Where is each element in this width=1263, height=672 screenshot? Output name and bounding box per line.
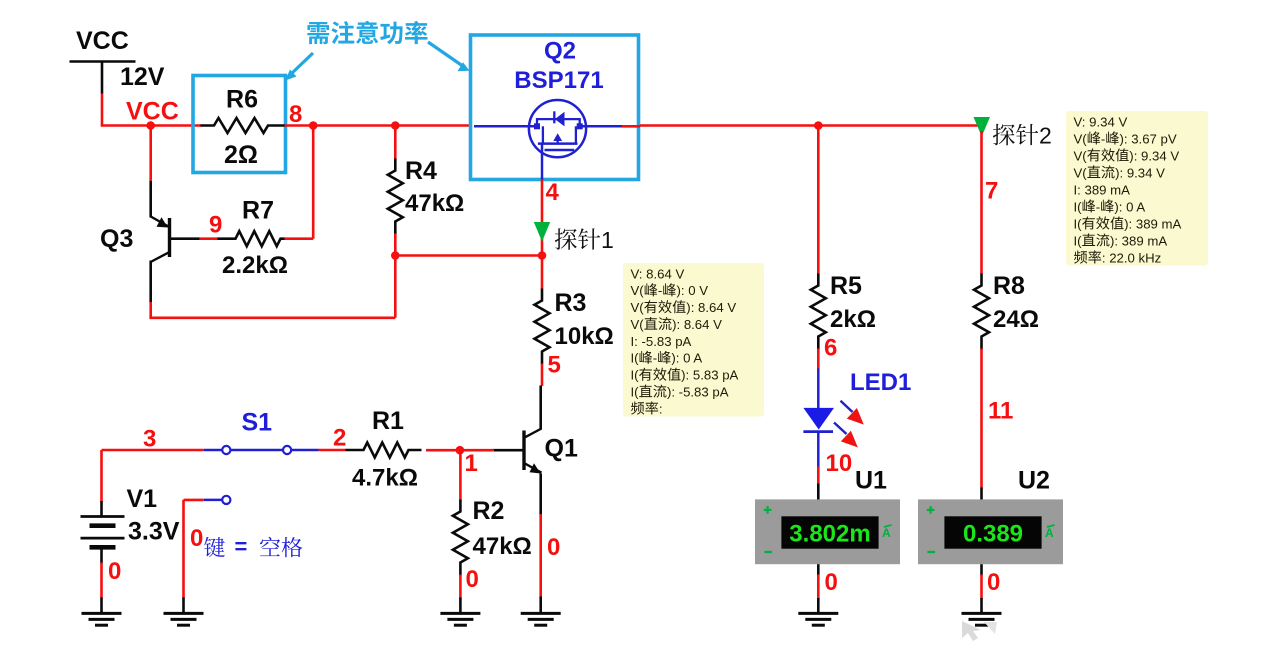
resistor R8 <box>974 272 1039 350</box>
svg-text::: : <box>659 401 663 416</box>
svg-text:Q3: Q3 <box>100 225 133 253</box>
svg-text:3: 3 <box>143 426 156 453</box>
svg-text:A: A <box>882 526 891 540</box>
node 3 wire <box>102 426 204 453</box>
annotation arrow to R6 <box>285 53 313 81</box>
ground under V1 <box>82 613 122 625</box>
node 8 <box>289 101 318 130</box>
wire U1 top stub <box>817 484 820 500</box>
probe 1 label 探针1 <box>555 227 614 253</box>
wire rail node8 to Q2 box <box>313 124 470 127</box>
svg-text:2kΩ: 2kΩ <box>830 306 876 333</box>
wire R5 drop <box>817 126 820 275</box>
svg-text:I(: I( <box>631 368 640 383</box>
wire VCC drop <box>101 94 151 126</box>
svg-text:BSP171: BSP171 <box>514 67 603 94</box>
highlight box around Q2 <box>471 35 639 180</box>
label 2 <box>333 425 346 452</box>
svg-text:R5: R5 <box>830 272 862 300</box>
annotation text 需注意功率 <box>307 21 427 44</box>
svg-text:R2: R2 <box>473 497 505 525</box>
svg-text:V(: V( <box>631 283 645 298</box>
wire U2 bottom <box>982 564 1001 613</box>
svg-text:0.389: 0.389 <box>963 521 1023 548</box>
svg-text:I: 389 mA: I: 389 mA <box>1074 182 1131 197</box>
svg-text:S1: S1 <box>242 409 273 437</box>
svg-text:): 9.34 V: ): 9.34 V <box>1115 165 1165 180</box>
wire S1 lower to ground <box>184 500 204 613</box>
wire node 10 <box>818 450 852 485</box>
svg-text:I: -5.83 pA: I: -5.83 pA <box>631 334 692 349</box>
svg-text:): 8.64 V: ): 8.64 V <box>672 317 722 332</box>
svg-text:2: 2 <box>1039 123 1052 149</box>
svg-text:12V: 12V <box>120 63 165 91</box>
ground under R2 <box>440 613 480 625</box>
wire R2 top <box>459 450 462 500</box>
switch S1 lower contact <box>204 496 231 504</box>
led arrow 1 <box>841 401 864 425</box>
svg-text:I(: I( <box>1074 216 1083 231</box>
label node 7 <box>985 178 998 205</box>
label LED1 <box>850 369 911 396</box>
svg-text:R6: R6 <box>226 86 258 114</box>
svg-text:3.802m: 3.802m <box>789 521 870 548</box>
wire V1 top <box>100 450 103 502</box>
svg-text:I(: I( <box>631 351 640 366</box>
svg-text:8: 8 <box>289 101 302 128</box>
svg-text:2.2kΩ: 2.2kΩ <box>222 252 288 279</box>
svg-text:V(: V( <box>631 317 645 332</box>
wire Q2 drain out <box>622 125 640 128</box>
svg-text:47kΩ: 47kΩ <box>405 190 464 217</box>
node VCC junction <box>146 121 155 130</box>
probe 2 label 探针2 <box>993 123 1052 149</box>
svg-text:): 389 mA: ): 389 mA <box>1110 233 1167 248</box>
wire Q2 source down <box>541 180 544 256</box>
svg-text:Q2: Q2 <box>544 38 576 65</box>
node 1 <box>456 446 478 477</box>
svg-text:V(: V( <box>1074 131 1088 146</box>
svg-text:0: 0 <box>825 569 838 596</box>
wire S1 to R1 <box>319 449 347 452</box>
wire Q3 emitter <box>149 126 152 182</box>
svg-text:0: 0 <box>466 566 479 593</box>
svg-text:5: 5 <box>548 352 561 379</box>
battery V1 <box>81 485 180 564</box>
svg-text:V(: V( <box>1074 165 1088 180</box>
ground under S1 branch <box>164 613 204 625</box>
svg-text:0: 0 <box>547 534 560 561</box>
svg-text:I(: I( <box>1074 199 1083 214</box>
node R4 bottom <box>391 251 400 260</box>
probe 1 readout box <box>623 263 764 417</box>
wire R7 to node 8 column <box>285 126 314 239</box>
svg-text:47kΩ: 47kΩ <box>473 533 532 560</box>
svg-text:10: 10 <box>826 450 853 477</box>
svg-text:R4: R4 <box>405 157 437 185</box>
wire U2 top stub <box>980 488 983 500</box>
svg-text:VCC: VCC <box>126 98 179 126</box>
svg-text:A: A <box>1045 526 1054 540</box>
resistor R3 <box>535 289 614 365</box>
svg-text:R8: R8 <box>993 272 1025 300</box>
wire R8 drop <box>980 131 983 274</box>
transistor Q3 <box>100 180 200 303</box>
svg-text:): 3.67 pV: ): 3.67 pV <box>1120 131 1177 146</box>
cursor artifact <box>962 621 997 641</box>
svg-text:-: - <box>658 283 662 298</box>
svg-text:U1: U1 <box>855 467 887 495</box>
ground under U2 <box>962 613 1002 625</box>
svg-text:4: 4 <box>546 179 560 206</box>
label U1 <box>855 467 887 495</box>
svg-text:Q1: Q1 <box>545 435 578 463</box>
wire node 9 base <box>200 212 223 239</box>
svg-text:U2: U2 <box>1018 467 1050 495</box>
resistor R6 <box>201 86 285 170</box>
wire R2 bottom <box>460 566 478 613</box>
highlight box around R6 <box>193 76 286 173</box>
wire Q1 emitter <box>541 474 561 614</box>
svg-text:V: 9.34 V: V: 9.34 V <box>1074 114 1128 129</box>
probe 2 arrow <box>974 117 991 137</box>
svg-text:R3: R3 <box>555 289 587 317</box>
net label VCC <box>126 98 179 126</box>
annotation arrow to Q2 <box>428 42 470 71</box>
wire node 11 <box>982 349 1014 489</box>
resistor R7 <box>218 197 288 280</box>
wire node 6 <box>818 335 837 370</box>
svg-text:1: 1 <box>601 227 614 253</box>
ammeter U1 <box>755 499 900 564</box>
svg-text:V1: V1 <box>127 485 158 513</box>
mosfet Q2 symbol <box>474 100 622 179</box>
svg-text:): -5.83 pA: ): -5.83 pA <box>667 385 729 400</box>
svg-text:-: - <box>1096 199 1100 214</box>
wire R3 top <box>541 256 544 290</box>
svg-text:): 0 V: ): 0 V <box>676 283 708 298</box>
label U2 <box>1018 467 1050 495</box>
label 12V <box>120 63 165 91</box>
node rail R4 top <box>391 121 400 130</box>
svg-text:0: 0 <box>190 525 203 552</box>
svg-text:7: 7 <box>985 178 998 205</box>
svg-text:24Ω: 24Ω <box>993 306 1039 333</box>
svg-text:4.7kΩ: 4.7kΩ <box>352 465 418 492</box>
svg-text:V: 8.64 V: V: 8.64 V <box>631 266 685 281</box>
node 4 label <box>546 179 560 206</box>
transistor Q1 <box>493 386 578 474</box>
wire R4 bottom <box>394 234 397 256</box>
svg-text:): 0 A: ): 0 A <box>1114 199 1145 214</box>
probe 2 readout box <box>1066 111 1208 266</box>
svg-text:0: 0 <box>987 569 1000 596</box>
svg-text:): 389 mA: ): 389 mA <box>1124 216 1181 231</box>
resistor R4 <box>388 157 464 235</box>
svg-text:2Ω: 2Ω <box>224 141 258 169</box>
svg-text:11: 11 <box>988 398 1013 425</box>
svg-text:-: - <box>1101 131 1105 146</box>
wire R4 top <box>394 126 397 160</box>
svg-text:I(: I( <box>631 385 640 400</box>
svg-text:: 22.0 kHz: : 22.0 kHz <box>1102 250 1161 265</box>
resistor R1 <box>346 407 422 492</box>
resistor R5 <box>811 272 876 350</box>
svg-text:): 0 A: ): 0 A <box>671 351 702 366</box>
svg-text:1: 1 <box>465 450 478 477</box>
svg-text:LED1: LED1 <box>850 369 911 396</box>
wire rail R6 to node 8 <box>285 124 314 127</box>
svg-text:R1: R1 <box>372 407 404 435</box>
svg-text:V(: V( <box>1074 148 1088 163</box>
svg-text:): 8.64 V: ): 8.64 V <box>686 300 736 315</box>
wire rail to probe2 <box>818 124 981 127</box>
probe 1 arrow <box>534 222 550 242</box>
wire node 5 <box>542 352 561 387</box>
svg-text:V(: V( <box>631 300 645 315</box>
ammeter U2 <box>918 499 1063 564</box>
wire V1 bottom <box>102 558 122 613</box>
wire Q3 collector loop <box>149 256 395 318</box>
wire base node 1 <box>460 449 494 452</box>
svg-text:-: - <box>653 351 657 366</box>
wire R4 to probe1 node <box>395 254 542 257</box>
wire rail to R5 <box>640 124 818 127</box>
svg-text:I(: I( <box>1074 233 1083 248</box>
label BSP171 <box>514 67 603 94</box>
svg-text:6: 6 <box>824 335 837 362</box>
ground under Q1 <box>521 613 561 625</box>
svg-text:9: 9 <box>209 212 222 239</box>
label Q2 <box>544 38 576 65</box>
ground under U1 <box>798 613 838 625</box>
resistor R2 <box>453 497 532 576</box>
wire rail VCC to R6 <box>151 124 201 127</box>
label 键 = 空格 <box>204 534 302 559</box>
node probe1 junction <box>538 251 547 260</box>
svg-text:0: 0 <box>108 558 121 585</box>
svg-text:R7: R7 <box>242 197 274 225</box>
power VCC symbol <box>70 27 136 94</box>
switch S1 <box>204 409 319 455</box>
wire U1 bottom <box>818 564 838 613</box>
svg-text:): 5.83 pA: ): 5.83 pA <box>681 368 738 383</box>
led LED1 symbol <box>803 369 834 468</box>
svg-text:VCC: VCC <box>76 27 129 55</box>
svg-text:10kΩ: 10kΩ <box>555 323 614 350</box>
wire R1 to node 1 <box>426 449 460 452</box>
svg-text:2: 2 <box>333 425 346 452</box>
node R5 top <box>814 121 823 130</box>
svg-text:=: = <box>235 534 248 559</box>
svg-text:3.3V: 3.3V <box>128 518 180 546</box>
led arrow 2 <box>834 423 858 448</box>
svg-text:): 9.34 V: ): 9.34 V <box>1129 148 1179 163</box>
